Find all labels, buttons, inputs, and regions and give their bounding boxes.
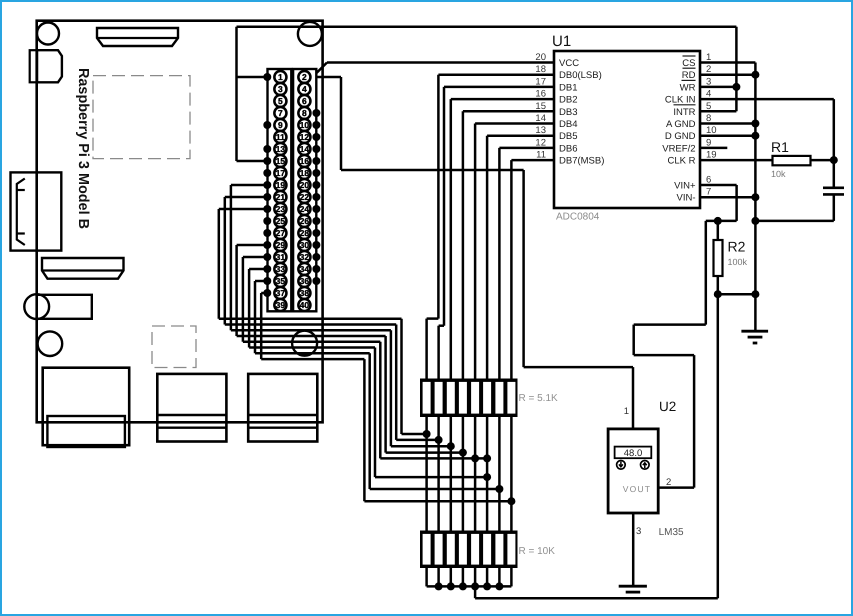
- wire GPIO pin35 out: [255, 280, 267, 283]
- svg-text:WR: WR: [680, 82, 696, 93]
- svg-text:19: 19: [706, 150, 717, 161]
- wire DB4 drop: [474, 124, 477, 380]
- wire 5V: VCC run to U1 pin20: [327, 61, 554, 64]
- pin marker GPIO 23: [263, 205, 271, 213]
- wire GPIO pin21 run under header: [225, 323, 396, 326]
- svg-text:VOUT: VOUT: [623, 484, 651, 494]
- svg-text:RD: RD: [682, 70, 696, 81]
- svg-text:8: 8: [302, 108, 307, 118]
- svg-text:VREF/2: VREF/2: [662, 143, 695, 154]
- DSI connector: [11, 172, 62, 250]
- svg-text:D GND: D GND: [665, 131, 696, 142]
- wire GPIO pin31 out: [243, 256, 267, 259]
- GPIO pin 12: [298, 131, 310, 143]
- svg-text:24: 24: [300, 204, 310, 214]
- svg-text:DB2: DB2: [559, 95, 577, 106]
- GPIO pin 1: [274, 71, 286, 83]
- svg-text:VIN+: VIN+: [674, 181, 696, 192]
- svg-text:31: 31: [276, 252, 286, 262]
- junction GPIO pin21 tap: [435, 436, 443, 444]
- svg-text:29: 29: [276, 240, 286, 250]
- wire GPIO pin35 drop: [254, 281, 257, 353]
- svg-text:10: 10: [706, 125, 717, 136]
- svg-text:DB0(LSB): DB0(LSB): [559, 70, 602, 81]
- wire DB0 to network: [425, 319, 428, 379]
- pin marker GPIO 33: [263, 265, 271, 273]
- svg-text:15: 15: [276, 156, 286, 166]
- svg-text:39: 39: [276, 300, 286, 310]
- wire U1 DB1 pin: [444, 86, 554, 89]
- GPIO pin 26: [298, 215, 310, 227]
- svg-text:VIN-: VIN-: [677, 193, 696, 204]
- svg-text:U1: U1: [552, 33, 571, 50]
- wire GPIO pin21 drop: [224, 197, 227, 325]
- GPIO pin 14: [298, 143, 310, 155]
- capacitor C1: [823, 187, 844, 190]
- GPIO pin 3: [274, 83, 286, 95]
- GPIO pin 23: [274, 203, 286, 215]
- svg-text:18: 18: [300, 168, 310, 178]
- pin marker GPIO 32: [312, 253, 320, 261]
- USB block 2: [157, 374, 226, 442]
- svg-text:38: 38: [300, 288, 310, 298]
- wire R2 bottom lead: [717, 276, 720, 294]
- ground U2: [619, 585, 647, 588]
- wire network bus drop: [474, 586, 477, 598]
- svg-text:2: 2: [706, 64, 711, 75]
- wire net7 between networks: [498, 417, 501, 532]
- GPIO pin 28: [298, 227, 310, 239]
- wire DB5 drop: [486, 136, 489, 379]
- wire U2 pin2: [658, 486, 694, 489]
- GPIO pin 8: [298, 107, 310, 119]
- resistor network R = 10K: [421, 531, 518, 568]
- wire net2 below R10K: [437, 568, 440, 587]
- GPIO pin 4: [298, 83, 310, 95]
- wire net5 below R10K: [474, 568, 477, 587]
- wire GPIO pin29 run under header: [237, 335, 386, 338]
- svg-text:16: 16: [535, 89, 546, 100]
- wire U1 DB7 pin: [511, 159, 554, 162]
- wire VIN+ drop to U2 pin2: [693, 355, 696, 488]
- mounting hole bottom-left: [38, 331, 63, 356]
- wire net4 between networks: [462, 417, 465, 532]
- svg-text:6: 6: [706, 175, 711, 186]
- svg-text:1: 1: [624, 406, 629, 417]
- wire GPIO pin21 out: [225, 196, 267, 199]
- svg-text:26: 26: [300, 216, 310, 226]
- wire ground drop long: [717, 294, 720, 598]
- GPIO pin 29: [274, 239, 286, 251]
- wire cap top drop: [833, 99, 836, 187]
- wire 3V3: header pin1 to left riser: [237, 76, 268, 79]
- wire 5V run right: [341, 169, 524, 172]
- GPIO pin 34: [298, 263, 310, 275]
- GPIO pin 13: [274, 143, 286, 155]
- wire GPIO pin37 run under header: [261, 358, 364, 361]
- svg-text:11: 11: [276, 132, 285, 142]
- junction network bus: [435, 582, 443, 590]
- GPIO pin 10: [298, 119, 310, 131]
- wire net2 between networks: [437, 417, 440, 532]
- svg-text:5: 5: [706, 101, 711, 112]
- svg-text:15: 15: [535, 101, 546, 112]
- GPIO pin 18: [298, 167, 310, 179]
- wire GPIO pin19 drop: [230, 185, 233, 330]
- GPIO header connector: [268, 69, 292, 311]
- svg-text:R = 5.1K: R = 5.1K: [519, 393, 559, 404]
- wire GPIO pin31 tap run: [380, 457, 487, 460]
- svg-text:DB4: DB4: [559, 119, 577, 130]
- USB block 3: [248, 374, 317, 442]
- svg-text:DB7(MSB): DB7(MSB): [559, 156, 604, 167]
- svg-text:U2: U2: [659, 399, 676, 414]
- svg-text:11: 11: [536, 150, 546, 161]
- svg-text:30: 30: [300, 240, 310, 250]
- junction GPIO pin37 tap: [507, 497, 515, 505]
- junction WR / 3V3 drop: [732, 83, 740, 91]
- wire GPIO pin19 tap run: [391, 445, 451, 448]
- wire net3 between networks: [450, 417, 453, 532]
- wire GPIO pin29 tap run: [386, 451, 463, 454]
- svg-text:1: 1: [706, 52, 711, 63]
- wire 3V3 left riser: [235, 27, 238, 161]
- wire DB0 drop: [437, 75, 440, 319]
- wire GPIO pin31 drop: [242, 257, 245, 342]
- wire net6 between networks: [486, 417, 489, 532]
- pin marker GPIO 27: [263, 229, 271, 237]
- wire VIN+ run right: [634, 354, 694, 357]
- GPIO pin 24: [298, 203, 310, 215]
- wire DB6 drop: [498, 148, 501, 379]
- wire U1 RD pin2: [700, 73, 755, 76]
- wire GPIO pin29 drop: [235, 245, 238, 336]
- GPIO pin 17: [274, 167, 286, 179]
- svg-text:4: 4: [706, 89, 711, 100]
- svg-text:17: 17: [535, 76, 546, 87]
- pin marker GPIO 21: [263, 193, 271, 201]
- GPIO pin 22: [298, 191, 310, 203]
- GPIO pin 30: [298, 239, 310, 251]
- wire net1 below R10K: [425, 568, 428, 587]
- pin marker GPIO 10: [312, 121, 320, 129]
- pin marker GPIO 13: [263, 145, 271, 153]
- wire 5V: header pin2 out: [316, 76, 341, 79]
- GPIO pin 5: [274, 95, 286, 107]
- pin marker GPIO 31: [263, 253, 271, 261]
- svg-text:DB5: DB5: [559, 131, 577, 142]
- wire DB1 jog: [439, 324, 444, 327]
- junction R1 / cap node: [830, 156, 838, 164]
- junction GPIO pin23 tap: [423, 430, 431, 438]
- wire GPIO pin29 out: [237, 244, 268, 247]
- svg-text:5: 5: [278, 96, 283, 106]
- pin marker GPIO 37: [263, 289, 271, 297]
- svg-text:25: 25: [276, 216, 286, 226]
- svg-text:8: 8: [706, 113, 711, 124]
- small dashed box: [152, 326, 196, 368]
- svg-text:Raspberry Pi 3 Model B: Raspberry Pi 3 Model B: [75, 68, 91, 229]
- wire U1 DB5 pin: [487, 134, 554, 137]
- pin marker GPIO 15: [263, 157, 271, 165]
- power connector left: [30, 50, 37, 82]
- svg-text:34: 34: [300, 264, 310, 274]
- svg-text:10: 10: [300, 120, 310, 130]
- svg-text:1: 1: [278, 72, 283, 82]
- wire DB3 drop: [462, 111, 465, 379]
- wire 5V diagonal at header pin2: [317, 63, 328, 74]
- wire network bottom bus: [427, 585, 512, 588]
- temperature sensor U2 LM35: [608, 429, 658, 513]
- pin marker GPIO 26: [312, 217, 320, 225]
- svg-text:LM35: LM35: [659, 527, 684, 538]
- GPIO pin 39: [274, 299, 286, 311]
- svg-text:20: 20: [535, 52, 546, 63]
- svg-text:20: 20: [300, 180, 310, 190]
- svg-text:7: 7: [278, 108, 283, 118]
- svg-text:100k: 100k: [728, 257, 748, 267]
- GPIO pin 32: [298, 251, 310, 263]
- wire ground rail: [754, 63, 757, 332]
- USB block 1: [43, 368, 130, 446]
- wire U1 DB2 pin: [451, 98, 554, 101]
- wire GPIO pin21 drop 2: [395, 325, 398, 440]
- wire VIN+ drop 3: [632, 325, 635, 356]
- pin marker GPIO 9: [263, 121, 271, 129]
- wire cap bottom drop: [833, 195, 836, 221]
- wire cap bottom to ground rail: [755, 220, 833, 223]
- wire 3V3 top run: [237, 26, 737, 29]
- wire net7 below R10K: [498, 568, 501, 587]
- ground main: [741, 330, 768, 333]
- svg-text:A GND: A GND: [666, 119, 696, 130]
- wire U1 D GND pin10: [700, 134, 755, 137]
- svg-text:35: 35: [276, 276, 286, 286]
- wire GPIO pin19 drop 2: [390, 330, 393, 446]
- svg-text:R2: R2: [728, 239, 746, 255]
- wire GPIO pin33 out: [249, 268, 267, 271]
- wire GPIO pin37 drop: [260, 293, 263, 359]
- svg-text:27: 27: [276, 228, 286, 238]
- wire U1 DB0 pin: [438, 73, 554, 76]
- svg-text:VCC: VCC: [559, 58, 579, 69]
- svg-text:3: 3: [278, 84, 283, 94]
- wire DB7 drop: [510, 160, 513, 379]
- svg-text:14: 14: [300, 144, 310, 154]
- svg-text:4: 4: [302, 84, 307, 94]
- junction A GND / rail: [751, 120, 759, 128]
- wire GPIO pin33 run under header: [249, 346, 375, 349]
- svg-text:12: 12: [535, 137, 546, 148]
- wire GPIO pin29 drop 2: [384, 336, 387, 453]
- svg-text:3: 3: [706, 76, 711, 87]
- svg-text:48.0: 48.0: [624, 448, 643, 459]
- svg-text:23: 23: [276, 204, 286, 214]
- GPIO pin 37: [274, 287, 286, 299]
- GPIO pin 36: [298, 275, 310, 287]
- wire R2 bottom to ground rail: [718, 293, 756, 296]
- wire R2 top lead: [717, 221, 720, 240]
- wire GPIO pin37 out: [261, 292, 267, 295]
- wire GPIO pin23 tap run: [402, 433, 427, 436]
- svg-text:18: 18: [535, 64, 546, 75]
- wire DB2 drop: [450, 99, 453, 379]
- junction R2 bottom: [714, 290, 722, 298]
- svg-text:32: 32: [300, 252, 310, 262]
- svg-text:CLK IN: CLK IN: [665, 95, 696, 106]
- svg-text:6: 6: [302, 96, 307, 106]
- junction GPIO pin31 tap: [471, 454, 479, 462]
- svg-text:16: 16: [300, 156, 310, 166]
- junction GPIO pin29 tap: [459, 449, 467, 457]
- wire GPIO pin37 drop 2: [363, 359, 366, 501]
- wire GPIO pin31 drop 2: [379, 342, 382, 459]
- pin marker GPIO 18: [312, 169, 320, 177]
- wire U1 DB4 pin: [475, 122, 554, 125]
- wire VIN+ drop 2: [705, 221, 708, 325]
- pin marker GPIO 19: [263, 181, 271, 189]
- pin marker GPIO 36: [312, 277, 320, 285]
- GPIO pin 6: [298, 95, 310, 107]
- svg-text:13: 13: [535, 125, 546, 136]
- wire U1 INTR pin5: [700, 110, 736, 113]
- GPIO pin 15: [274, 155, 286, 167]
- junction RD / ground rail: [751, 71, 759, 79]
- svg-text:10k: 10k: [771, 169, 786, 179]
- wire GPIO pin35 drop 2: [368, 353, 371, 489]
- wire U1 VIN+ pin6: [700, 184, 737, 187]
- wire DB1 drop: [443, 87, 446, 326]
- wire 5V to U2 pin1: [524, 366, 633, 369]
- junction network bus: [471, 582, 479, 590]
- GPIO pin 33: [274, 263, 286, 275]
- camera connector top: [97, 28, 178, 46]
- junction GPIO pin35 tap: [495, 485, 503, 493]
- SoC dashed box: [93, 76, 190, 159]
- svg-text:14: 14: [535, 113, 546, 124]
- GPIO pin 35: [274, 275, 286, 287]
- svg-text:2: 2: [666, 477, 671, 488]
- svg-text:19: 19: [276, 180, 286, 190]
- GPIO pin 19: [274, 179, 286, 191]
- svg-text:R1: R1: [771, 139, 789, 155]
- mounting hole top-left: [37, 23, 59, 45]
- junction VIN- / rail: [751, 193, 759, 201]
- junction GPIO pin31 tap: [483, 454, 491, 462]
- svg-text:40: 40: [300, 300, 310, 310]
- junction rail / R2 bottom: [751, 290, 759, 298]
- pin marker GPIO 35: [263, 277, 271, 285]
- HDMI connector: [42, 258, 124, 279]
- wire U1 VREF/2 pin9 stub: [700, 147, 727, 150]
- svg-text:28: 28: [300, 228, 310, 238]
- svg-text:DB1: DB1: [559, 82, 577, 93]
- GPIO pin 25: [274, 215, 286, 227]
- wire net8 below R10K: [510, 568, 513, 587]
- wire 3V3 drop to U1 WR/INTR: [735, 27, 738, 112]
- junction D GND / rail: [751, 132, 759, 140]
- pin marker GPIO 16: [312, 157, 320, 165]
- svg-text:9: 9: [706, 137, 711, 148]
- wire U1 CLK IN pin4: [700, 98, 834, 101]
- svg-text:7: 7: [706, 187, 711, 198]
- junction GPIO pin19 tap: [447, 442, 455, 450]
- resistor R1: [773, 156, 811, 165]
- wire 5V drop: [340, 77, 343, 170]
- wire U1 DB3 pin: [463, 110, 554, 113]
- svg-text:36: 36: [300, 276, 310, 286]
- pin marker GPIO 20: [312, 181, 320, 189]
- pin marker GPIO 24: [312, 205, 320, 213]
- wire GPIO pin35 run under header: [255, 352, 370, 355]
- wire GPIO pin23 run under header: [219, 317, 402, 320]
- svg-text:CS: CS: [682, 58, 695, 69]
- GPIO pin 31: [274, 251, 286, 263]
- wire U2 pin1: [632, 367, 635, 429]
- wire net3 below R10K: [450, 568, 453, 587]
- wire GPIO pin23 drop 2: [400, 319, 403, 434]
- wire net8 between networks: [510, 417, 513, 532]
- wire net1 between networks: [425, 417, 428, 532]
- GPIO pin 38: [298, 287, 310, 299]
- svg-text:CLK R: CLK R: [668, 156, 696, 167]
- GPIO pin 11: [274, 131, 286, 143]
- wire DB0 jog: [427, 317, 439, 320]
- junction network bus: [447, 582, 455, 590]
- wire bottom ground bus run: [475, 597, 718, 600]
- pin marker GPIO 30: [312, 241, 320, 249]
- wire 3V3: header pin15 to left riser: [237, 160, 268, 163]
- GPIO pin 21: [274, 191, 286, 203]
- svg-text:2: 2: [302, 72, 307, 82]
- wire U2 pin3 to ground: [632, 513, 635, 585]
- pin marker GPIO 25: [263, 217, 271, 225]
- pin marker GPIO 17: [263, 169, 271, 177]
- wire net4 below R10K: [462, 568, 465, 587]
- junction network bus: [483, 582, 491, 590]
- pin marker GPIO 8: [312, 109, 320, 117]
- pin marker GPIO 28: [312, 229, 320, 237]
- junction network bus: [495, 582, 503, 590]
- wire U1 DB6 pin: [499, 147, 554, 150]
- svg-text:21: 21: [276, 192, 286, 202]
- audio jack: [37, 295, 92, 319]
- wire U1 CS pin1: [700, 61, 755, 64]
- junction cap return / rail: [751, 217, 759, 225]
- wire R1 to cap node: [811, 159, 834, 162]
- wire 5V drop to U2: [522, 170, 525, 367]
- svg-text:17: 17: [276, 168, 286, 178]
- resistor R2: [714, 240, 723, 276]
- svg-text:13: 13: [276, 144, 286, 154]
- GPIO pin 20: [298, 179, 310, 191]
- wire U1 VIN- pin7: [700, 196, 755, 199]
- wire VIN+ run left over R2: [706, 220, 737, 223]
- svg-text:ADC0804: ADC0804: [556, 212, 600, 223]
- svg-text:INTR: INTR: [673, 107, 695, 118]
- wire VIN+ run left: [634, 323, 706, 326]
- wire U1 A GND pin8: [700, 122, 755, 125]
- wire GPIO pin33 tap run: [375, 476, 487, 479]
- wire GPIO pin19 out: [231, 184, 267, 187]
- pin marker GPIO 12: [312, 133, 320, 141]
- svg-text:37: 37: [276, 288, 286, 298]
- svg-text:12: 12: [300, 132, 310, 142]
- wire DB1 to network: [437, 326, 440, 379]
- pin marker GPIO 34: [312, 265, 320, 273]
- junction R2 top: [714, 217, 722, 225]
- GPIO pin 40: [298, 299, 310, 311]
